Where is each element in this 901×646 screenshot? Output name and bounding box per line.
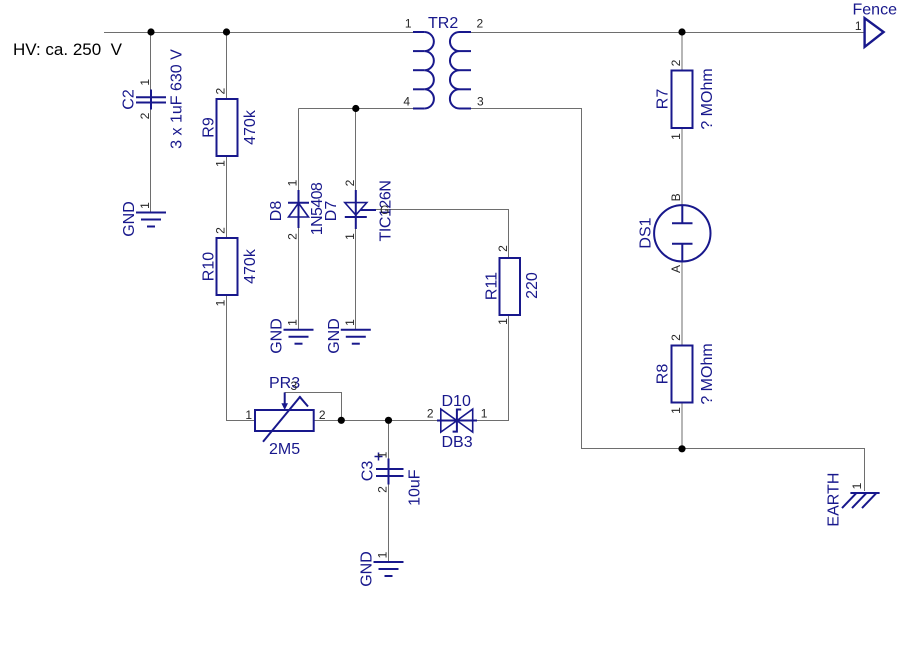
wire TR2 pin4 horizontal bbox=[299, 108, 414, 110]
svg-text:3: 3 bbox=[291, 379, 298, 393]
svg-text:R10: R10 bbox=[201, 252, 218, 281]
wire D7 to GND bbox=[355, 229, 357, 329]
wire D7 gate to R11 bbox=[376, 210, 509, 259]
svg-text:1: 1 bbox=[481, 407, 488, 421]
earth symbol EARTH bbox=[826, 473, 880, 527]
svg-text:GND: GND bbox=[359, 551, 376, 587]
lamp DS1 bbox=[638, 193, 711, 273]
svg-text:470k: 470k bbox=[242, 248, 259, 284]
svg-text:? MOhm: ? MOhm bbox=[699, 343, 716, 404]
svg-text:HV: ca. 250 V: HV: ca. 250 V bbox=[13, 40, 123, 59]
wire pot to D10 bbox=[314, 420, 439, 422]
wire HV to R7 bbox=[681, 32, 683, 71]
svg-text:GND: GND bbox=[326, 318, 343, 354]
svg-text:DB3: DB3 bbox=[442, 434, 473, 451]
svg-text:1: 1 bbox=[669, 407, 683, 414]
svg-text:1: 1 bbox=[286, 319, 300, 326]
resistor R10 bbox=[201, 227, 260, 307]
svg-text:GND: GND bbox=[269, 318, 286, 354]
svg-text:2: 2 bbox=[427, 407, 434, 421]
wire D7 branch upper bbox=[355, 109, 357, 191]
wire C3 top bbox=[388, 420, 390, 459]
svg-text:470k: 470k bbox=[242, 109, 259, 145]
svg-text:1: 1 bbox=[850, 482, 864, 489]
svg-text:R11: R11 bbox=[484, 272, 501, 300]
svg-text:2: 2 bbox=[286, 233, 300, 240]
wire C2 branch top bbox=[150, 32, 152, 90]
svg-text:1: 1 bbox=[405, 17, 412, 31]
diode D8 bbox=[268, 179, 326, 240]
potentiometer PR3 bbox=[245, 375, 326, 458]
diac D10 bbox=[427, 393, 488, 451]
svg-text:R7: R7 bbox=[655, 89, 672, 110]
junction wiper node bbox=[338, 417, 345, 424]
svg-text:1: 1 bbox=[138, 79, 152, 86]
capacitor C2 bbox=[121, 49, 186, 149]
svg-text:2: 2 bbox=[669, 334, 683, 341]
svg-text:1: 1 bbox=[214, 299, 228, 306]
resistor R9 bbox=[201, 88, 260, 167]
svg-text:2: 2 bbox=[138, 112, 152, 119]
wire pot wiper to node bbox=[285, 393, 342, 421]
svg-text:1: 1 bbox=[669, 133, 683, 140]
svg-text:B: B bbox=[669, 193, 683, 201]
wire D8 to GND bbox=[298, 228, 300, 329]
svg-text:Fence: Fence bbox=[853, 2, 898, 19]
svg-text:1: 1 bbox=[496, 318, 510, 325]
wire D8 branch upper bbox=[298, 109, 300, 191]
resistor R11 bbox=[484, 245, 542, 325]
wire R9 branch top bbox=[226, 32, 228, 99]
svg-text:1: 1 bbox=[376, 451, 390, 458]
junction HV-R7 bbox=[678, 28, 685, 35]
svg-text:10uF: 10uF bbox=[407, 469, 424, 506]
svg-text:1: 1 bbox=[855, 19, 862, 33]
svg-text:220: 220 bbox=[524, 272, 541, 299]
svg-text:R8: R8 bbox=[655, 364, 672, 385]
svg-text:2: 2 bbox=[477, 17, 484, 31]
connector Fence bbox=[853, 2, 898, 47]
svg-text:R9: R9 bbox=[201, 117, 218, 138]
svg-text:2: 2 bbox=[214, 227, 228, 234]
wire C2 to GND bbox=[150, 110, 152, 213]
svg-text:4: 4 bbox=[403, 95, 410, 109]
svg-text:1: 1 bbox=[343, 233, 357, 240]
ground GND under C3 bbox=[359, 551, 404, 587]
svg-text:1: 1 bbox=[376, 551, 390, 558]
ground GND under C2 bbox=[121, 201, 166, 237]
svg-text:2: 2 bbox=[319, 408, 326, 422]
svg-text:2: 2 bbox=[214, 88, 228, 95]
svg-text:1: 1 bbox=[286, 179, 300, 186]
wire R7 to DS1 bbox=[681, 128, 683, 205]
ground GND under D8 bbox=[269, 318, 314, 354]
svg-text:3: 3 bbox=[477, 95, 484, 109]
wire HV top rail right bbox=[471, 32, 865, 34]
svg-text:EARTH: EARTH bbox=[826, 473, 843, 527]
svg-text:? MOhm: ? MOhm bbox=[699, 68, 716, 129]
wire HV top rail left bbox=[104, 32, 413, 34]
svg-text:2: 2 bbox=[496, 245, 510, 252]
junction HV-R9 bbox=[223, 28, 230, 35]
svg-text:1: 1 bbox=[343, 319, 357, 326]
svg-text:GND: GND bbox=[121, 201, 138, 237]
wire R10 to pot bbox=[227, 295, 256, 421]
wire D10 to R11 branch bbox=[474, 420, 510, 422]
svg-text:1: 1 bbox=[138, 202, 152, 209]
wire R8 to bottom junction bbox=[681, 403, 683, 450]
resistor R8 bbox=[655, 334, 717, 414]
svg-text:1: 1 bbox=[245, 408, 252, 422]
resistor R7 bbox=[655, 59, 717, 140]
svg-text:DS1: DS1 bbox=[638, 217, 655, 248]
junction TR2 pin4 - D7 bbox=[352, 105, 359, 112]
svg-text:2: 2 bbox=[669, 59, 683, 66]
junction C3 node bbox=[385, 417, 392, 424]
wire TR2 pin3 to earth rail bbox=[471, 109, 865, 492]
svg-text:1: 1 bbox=[214, 160, 228, 167]
svg-text:C2: C2 bbox=[121, 89, 138, 110]
wire R9 to R10 bbox=[226, 156, 228, 238]
wire R11 to bottom rail bbox=[508, 315, 510, 421]
svg-text:D10: D10 bbox=[442, 393, 471, 410]
wire C3 to GND bbox=[388, 485, 390, 562]
capacitor C3 bbox=[360, 451, 424, 506]
svg-text:D7: D7 bbox=[323, 201, 340, 222]
svg-text:A: A bbox=[669, 265, 683, 273]
junction HV-C2 bbox=[147, 28, 154, 35]
svg-text:D8: D8 bbox=[268, 201, 285, 222]
svg-text:TR2: TR2 bbox=[428, 15, 458, 32]
svg-text:G: G bbox=[380, 203, 389, 217]
svg-text:2: 2 bbox=[376, 486, 390, 493]
svg-text:C3: C3 bbox=[360, 461, 377, 482]
wire DS1 to R8 bbox=[681, 262, 683, 346]
ground GND under D7 bbox=[326, 318, 371, 354]
svg-text:2M5: 2M5 bbox=[269, 441, 300, 458]
transformer TR2 bbox=[403, 15, 484, 109]
svg-text:2: 2 bbox=[343, 179, 357, 186]
junction earth rail - R8 bbox=[678, 445, 685, 452]
svg-text:3 x 1uF 630 V: 3 x 1uF 630 V bbox=[169, 49, 186, 149]
thyristor D7 bbox=[323, 179, 395, 241]
